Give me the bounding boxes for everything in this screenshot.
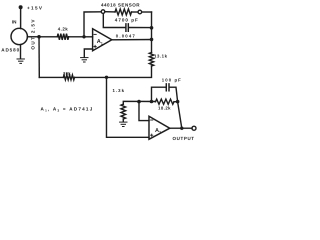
node: 18.2k/cap left xyxy=(150,100,154,104)
ground (A1) xyxy=(81,58,88,62)
wire 18.2k to right riser xyxy=(174,101,178,103)
node: output junction xyxy=(180,127,183,130)
svg-text:A1, A2 = AD741J: A1, A2 = AD741J xyxy=(40,106,93,112)
svg-text:4700 pF: 4700 pF xyxy=(115,17,138,22)
resistor 1.3k xyxy=(121,104,126,119)
node: divider tap xyxy=(105,76,108,79)
+15V supply terminal xyxy=(19,5,43,10)
wire A1 noninverting to ground xyxy=(84,49,92,57)
note A1,A2 = AD741J xyxy=(40,106,93,112)
wire A2 inverting input xyxy=(139,102,149,121)
node: feedback right xyxy=(176,100,180,104)
ground (AD580) xyxy=(17,59,24,63)
svg-text:4.2k: 4.2k xyxy=(58,26,69,31)
svg-text:44018 SENSOR: 44018 SENSOR xyxy=(101,2,140,7)
resistor 4.2k xyxy=(57,26,68,40)
svg-text:18.2k: 18.2k xyxy=(158,106,171,111)
wire feedback row left end xyxy=(123,101,155,104)
wire 1.3k to ground xyxy=(122,119,124,122)
wire node down to bottom row xyxy=(38,37,40,78)
wire cap to right rail xyxy=(129,27,152,29)
svg-text:13.1k: 13.1k xyxy=(154,53,168,58)
svg-text:1: 1 xyxy=(101,41,103,45)
wire tap down to A2 noninverting xyxy=(106,77,149,137)
wire xyxy=(132,11,139,13)
wire feedback riser xyxy=(84,12,101,37)
svg-text:100 pF: 100 pF xyxy=(162,77,181,82)
wire 4.2k to A1 inverting input xyxy=(39,36,92,38)
capacitor 100pF xyxy=(162,77,181,90)
thermistor 44018 sensor element xyxy=(115,9,132,15)
svg-text:OUTPUT: OUTPUT xyxy=(173,136,195,141)
svg-text:OUT 2.5V: OUT 2.5V xyxy=(31,19,36,50)
capacitor 100pF loop left riser xyxy=(151,87,166,101)
wire sensor to right rail xyxy=(142,11,152,13)
node: cap feedback joins rail xyxy=(150,26,154,30)
resistor 18.2k xyxy=(155,99,174,111)
svg-text:+15V: +15V xyxy=(27,5,43,10)
wire xyxy=(105,11,115,13)
wire AD580 ground lead xyxy=(20,45,22,59)
wire A2 output xyxy=(170,127,192,129)
right rail (feedback bus) xyxy=(151,12,153,53)
wire cap branch left xyxy=(103,13,125,27)
voltage reference U1 AD580 xyxy=(11,28,27,44)
node: A1 output on rail xyxy=(150,38,154,42)
wire AD580 output to node xyxy=(27,36,39,38)
resistor 13.1k xyxy=(149,53,167,67)
op-amp A1 xyxy=(93,29,112,51)
wire bottom row left xyxy=(39,76,63,78)
resistor 20k xyxy=(63,71,74,80)
node: 2.5V reference out xyxy=(37,35,41,39)
ground (1.3k) xyxy=(120,122,127,126)
wire supply to AD580 xyxy=(20,7,22,28)
svg-text:AD580: AD580 xyxy=(1,47,19,52)
node: A1 summing junction xyxy=(82,35,85,38)
svg-text:2: 2 xyxy=(159,131,161,135)
wire feedback down to output xyxy=(178,102,182,129)
node: A2 inverting junction xyxy=(137,100,141,104)
wire A1 output to right rail xyxy=(112,39,152,41)
sensor terminal (left) xyxy=(101,10,105,14)
output terminal xyxy=(192,126,196,130)
capacitor 0.0047uF xyxy=(115,17,138,38)
op-amp A2 xyxy=(149,116,170,139)
svg-text:20k: 20k xyxy=(63,71,71,76)
wire cap to right riser xyxy=(170,87,178,101)
wire 13.1k down to bottom row xyxy=(74,66,151,77)
sensor terminal (right) xyxy=(138,10,142,14)
svg-text:0.0047: 0.0047 xyxy=(116,33,136,38)
svg-text:IN: IN xyxy=(12,19,17,24)
svg-text:1.3k: 1.3k xyxy=(112,88,124,93)
